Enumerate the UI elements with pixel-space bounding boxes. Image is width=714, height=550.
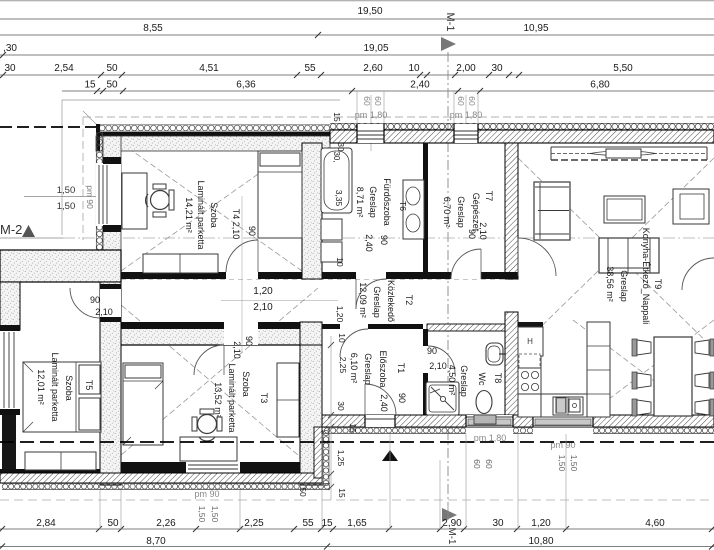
svg-text:60: 60 xyxy=(362,96,372,106)
svg-text:90: 90 xyxy=(247,226,257,236)
svg-text:T3: T3 xyxy=(259,393,269,404)
svg-text:1,25: 1,25 xyxy=(336,450,346,467)
svg-text:50: 50 xyxy=(298,487,308,497)
svg-text:10,95: 10,95 xyxy=(523,23,548,34)
svg-text:T2: T2 xyxy=(404,295,414,306)
svg-text:30: 30 xyxy=(492,518,504,529)
svg-text:Greslap: Greslap xyxy=(619,270,629,302)
svg-text:19,50: 19,50 xyxy=(357,6,382,17)
svg-text:4,51: 4,51 xyxy=(199,63,219,74)
svg-text:2,10: 2,10 xyxy=(95,307,113,317)
svg-text:8,71 m²: 8,71 m² xyxy=(355,187,365,218)
svg-text:14,21 m²: 14,21 m² xyxy=(184,197,194,233)
svg-text:Konyha-Étkező_Nappali: Konyha-Étkező_Nappali xyxy=(641,228,651,325)
svg-text:6,70 m²: 6,70 m² xyxy=(442,197,452,228)
svg-text:30: 30 xyxy=(336,401,346,411)
svg-text:1,50: 1,50 xyxy=(569,455,579,472)
svg-text:1,50: 1,50 xyxy=(197,506,207,523)
svg-text:50: 50 xyxy=(106,80,118,91)
svg-text:Előszoba: Előszoba xyxy=(378,350,388,387)
svg-text:1,50: 1,50 xyxy=(557,455,567,472)
svg-text:50: 50 xyxy=(106,63,118,74)
svg-text:2,25: 2,25 xyxy=(338,357,348,374)
svg-text:1,50: 1,50 xyxy=(210,506,220,523)
svg-text:15: 15 xyxy=(348,423,358,433)
svg-text:Fürdőszoba: Fürdőszoba xyxy=(382,178,392,226)
svg-text:pm 1,80: pm 1,80 xyxy=(355,110,388,120)
svg-text:H: H xyxy=(527,337,533,346)
svg-text:38,56 m²: 38,56 m² xyxy=(605,266,615,302)
svg-text:1,50: 1,50 xyxy=(57,185,76,196)
svg-text:Greslap: Greslap xyxy=(368,186,378,218)
svg-text:15: 15 xyxy=(84,80,96,91)
svg-text:30,: 30, xyxy=(332,151,341,162)
svg-text:90: 90 xyxy=(379,235,389,245)
svg-text:4,50 m²: 4,50 m² xyxy=(447,365,457,396)
svg-text:2,00: 2,00 xyxy=(456,63,476,74)
svg-text:2,10: 2,10 xyxy=(253,302,273,313)
svg-text:15: 15 xyxy=(332,112,342,122)
svg-text:T7: T7 xyxy=(484,191,494,202)
svg-text:10: 10 xyxy=(335,257,345,267)
svg-text:T9: T9 xyxy=(653,279,663,290)
svg-text:60: 60 xyxy=(456,96,466,106)
svg-text:1,50: 1,50 xyxy=(57,201,76,212)
svg-text:M-2: M-2 xyxy=(0,222,22,237)
svg-text:3,35: 3,35 xyxy=(334,190,344,207)
svg-text:M-1: M-1 xyxy=(446,527,457,545)
svg-text:90: 90 xyxy=(427,346,437,356)
svg-text:2,10: 2,10 xyxy=(429,361,447,371)
svg-text:Wc: Wc xyxy=(477,373,487,386)
svg-text:1,20: 1,20 xyxy=(531,518,551,529)
svg-text:Közlekedő: Közlekedő xyxy=(386,280,396,322)
svg-text:60: 60 xyxy=(472,459,482,469)
svg-text:2,90: 2,90 xyxy=(442,518,462,529)
svg-text:10: 10 xyxy=(337,333,347,343)
svg-text:Szoba: Szoba xyxy=(241,371,251,397)
svg-text:Laminált parketta: Laminált parketta xyxy=(50,352,60,421)
svg-text:60: 60 xyxy=(484,459,494,469)
svg-text:2,40: 2,40 xyxy=(364,234,374,252)
svg-text:12,01 m²: 12,01 m² xyxy=(36,369,46,405)
svg-text:50: 50 xyxy=(107,518,119,529)
svg-text:Greslap: Greslap xyxy=(372,286,382,318)
svg-text:T1: T1 xyxy=(396,363,406,374)
svg-text:12,09 m²: 12,09 m² xyxy=(358,282,368,318)
svg-text:6,80: 6,80 xyxy=(590,80,610,91)
svg-text:T5: T5 xyxy=(84,380,94,391)
svg-text:1,65: 1,65 xyxy=(347,518,367,529)
svg-text:2,40: 2,40 xyxy=(410,80,430,91)
svg-text:90: 90 xyxy=(90,295,100,305)
svg-text:Laminált parketta: Laminált parketta xyxy=(196,180,206,249)
svg-text:T6: T6 xyxy=(398,201,408,211)
svg-text:1,20: 1,20 xyxy=(335,306,345,323)
svg-text:T8: T8 xyxy=(493,373,503,384)
svg-text:19,05: 19,05 xyxy=(363,43,388,54)
svg-text:pm 90: pm 90 xyxy=(194,489,219,499)
svg-text:Szoba: Szoba xyxy=(64,375,74,401)
svg-text:Laminált parketta: Laminált parketta xyxy=(227,363,237,432)
svg-text:Szoba: Szoba xyxy=(209,202,219,228)
svg-text:2,54: 2,54 xyxy=(54,63,74,74)
svg-text:5,50: 5,50 xyxy=(613,63,633,74)
svg-text:55: 55 xyxy=(302,518,314,529)
svg-text:13,52 m²: 13,52 m² xyxy=(213,382,223,418)
svg-text:Greslap: Greslap xyxy=(459,365,469,397)
svg-text:2,84: 2,84 xyxy=(36,518,56,529)
svg-text:90: 90 xyxy=(397,393,407,403)
svg-text:6,10 m²: 6,10 m² xyxy=(349,353,359,384)
svg-text:90: 90 xyxy=(467,229,477,239)
svg-text:90: 90 xyxy=(244,336,254,346)
svg-text:15: 15 xyxy=(337,488,347,498)
svg-text:pm 1,80: pm 1,80 xyxy=(450,110,483,120)
svg-text:30: 30 xyxy=(336,143,345,152)
svg-text:Greslap: Greslap xyxy=(456,196,466,228)
svg-text:4,60: 4,60 xyxy=(645,518,665,529)
svg-text:30: 30 xyxy=(491,63,503,74)
svg-text:Greslap: Greslap xyxy=(363,353,373,385)
svg-text:2,25: 2,25 xyxy=(244,518,264,529)
svg-text:M-1: M-1 xyxy=(444,13,456,32)
svg-text:10: 10 xyxy=(408,63,420,74)
svg-text:60: 60 xyxy=(373,96,383,106)
svg-text:2,26: 2,26 xyxy=(156,518,176,529)
svg-text:60: 60 xyxy=(467,96,477,106)
svg-text:8,70: 8,70 xyxy=(146,536,166,547)
svg-text:pm 90: pm 90 xyxy=(85,185,95,209)
svg-text:2,40: 2,40 xyxy=(379,394,389,412)
svg-text:2,60: 2,60 xyxy=(363,63,383,74)
svg-text:2,10: 2,10 xyxy=(232,341,242,359)
svg-text:10,80: 10,80 xyxy=(528,536,553,547)
svg-text:55: 55 xyxy=(304,63,316,74)
svg-text:6,36: 6,36 xyxy=(236,80,256,91)
svg-text:1,20: 1,20 xyxy=(253,286,273,297)
svg-text:T4 2,10: T4 2,10 xyxy=(231,209,241,240)
svg-text:8,55: 8,55 xyxy=(143,23,163,34)
svg-text:2,10: 2,10 xyxy=(478,222,488,240)
